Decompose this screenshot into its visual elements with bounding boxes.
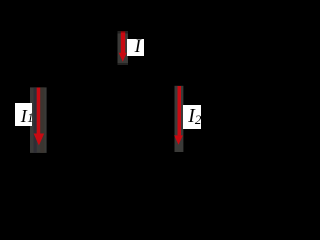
current arrow I (top) xyxy=(119,31,127,62)
label I1 xyxy=(15,103,32,126)
label I xyxy=(127,39,144,56)
wire node split xyxy=(38,68,179,80)
label I2 xyxy=(183,105,201,129)
wire highlight band top branch xyxy=(118,31,129,65)
wire top feed xyxy=(109,10,111,28)
current arrow I2 (right) xyxy=(174,86,183,145)
current arrow I1 (left) xyxy=(34,88,45,146)
wire highlight band right branch xyxy=(175,86,184,152)
wire highlight band left branch xyxy=(30,87,47,152)
